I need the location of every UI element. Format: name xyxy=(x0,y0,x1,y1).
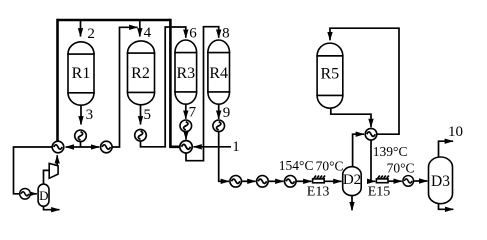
svg-text:2: 2 xyxy=(87,26,95,42)
svg-text:D: D xyxy=(39,188,48,203)
svg-text:10: 10 xyxy=(448,124,463,140)
svg-text:70°C: 70°C xyxy=(387,161,415,176)
svg-text:D3: D3 xyxy=(431,173,450,190)
svg-text:9: 9 xyxy=(223,105,231,121)
svg-text:3: 3 xyxy=(86,107,94,123)
svg-text:D2: D2 xyxy=(343,172,361,188)
svg-text:R4: R4 xyxy=(209,65,228,82)
svg-text:4: 4 xyxy=(144,25,152,41)
svg-text:139°C: 139°C xyxy=(373,144,408,159)
svg-text:E15: E15 xyxy=(368,185,391,200)
svg-text:6: 6 xyxy=(189,26,197,42)
svg-text:1: 1 xyxy=(232,139,240,155)
svg-text:R5: R5 xyxy=(320,66,339,83)
svg-text:5: 5 xyxy=(144,107,152,123)
svg-text:E13: E13 xyxy=(307,185,330,200)
svg-text:R3: R3 xyxy=(176,65,195,82)
svg-text:154°C: 154°C xyxy=(279,158,314,173)
svg-text:8: 8 xyxy=(222,26,230,42)
svg-text:7: 7 xyxy=(189,105,197,121)
svg-text:R1: R1 xyxy=(72,65,91,82)
svg-text:70°C: 70°C xyxy=(316,158,344,173)
svg-text:R2: R2 xyxy=(131,65,150,82)
